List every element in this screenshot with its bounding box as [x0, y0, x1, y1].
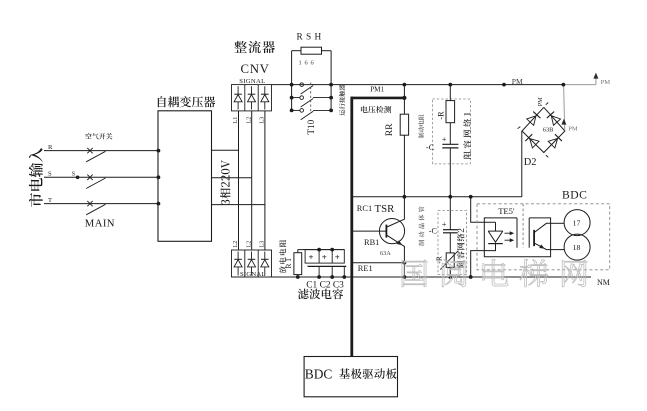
- contactor T10 contact 3: [292, 109, 300, 111]
- diode in top cell at x=238.1: [237, 86, 239, 94]
- wire bridge left corner down: [521, 131, 523, 197]
- wire column L1: [238, 111, 240, 250]
- watermark 国阅电梯网: [402, 259, 587, 287]
- svg-text:+: +: [335, 252, 340, 262]
- wire transformer tap L2: [212, 177, 252, 179]
- filter caps bottom wires: [318, 266, 320, 277]
- transformer 自耦变压器 box: [158, 111, 212, 242]
- svg-text:RB1: RB1: [364, 238, 379, 247]
- junction dot bus/bridge feed: [562, 83, 566, 87]
- svg-text:63B: 63B: [543, 126, 554, 133]
- wire mains phase R: [44, 150, 158, 152]
- svg-text:MAIN: MAIN: [85, 218, 115, 230]
- bridge diode bottom-right: [548, 138, 557, 147]
- resistor R1 body: [294, 253, 302, 275]
- bridge diode bottom-left: [530, 139, 539, 148]
- label 阻容网络1: [463, 113, 471, 159]
- diode bridge D2 outline: [522, 107, 565, 152]
- wire collector rail RC1: [352, 196, 522, 198]
- contactor T10 contact 2: [292, 97, 300, 99]
- main DC bus gray segment: [563, 84, 596, 86]
- label mains input 市电输入: [29, 148, 43, 207]
- wire RR branch: [403, 85, 405, 115]
- junction dots contact 3: [290, 109, 294, 113]
- filter caps bottom plate: [308, 265, 347, 267]
- svg-text:-C: -C: [426, 143, 435, 152]
- svg-text:63A: 63A: [380, 250, 391, 257]
- svg-text:T10: T10: [306, 119, 316, 134]
- junction dot optocoupler feed: [469, 195, 473, 199]
- label 基极驱动板: [339, 368, 397, 379]
- rectifier bottom diode cells: [232, 250, 272, 277]
- resistor RSH loop wires: [292, 50, 301, 52]
- svg-text:+: +: [442, 219, 447, 229]
- svg-text:TE5': TE5': [498, 206, 515, 216]
- svg-text:S: S: [72, 171, 76, 178]
- breaker switch S: [87, 175, 92, 180]
- svg-text:CNV: CNV: [241, 62, 270, 76]
- bridge diode top-left: [527, 116, 536, 126]
- svg-text:PM: PM: [601, 79, 611, 86]
- junction dots on negative bus: [403, 275, 407, 279]
- svg-text:+: +: [309, 252, 314, 262]
- label 制动晶体管: [419, 206, 425, 245]
- svg-text:RC1: RC1: [357, 204, 372, 213]
- junction dot R1 bottom: [296, 275, 300, 279]
- svg-text:R 1: R 1: [284, 258, 293, 269]
- svg-text:+: +: [322, 252, 327, 262]
- wire R1 leads: [297, 250, 299, 253]
- wire network2 branch: [449, 197, 451, 230]
- BDC dashed box: [477, 204, 610, 270]
- label 滤波电容: [298, 289, 343, 300]
- wire to terminal 18: [551, 249, 565, 251]
- wire bus to bridge right corner: [564, 85, 565, 131]
- optocoupler slot dashed line: [522, 204, 524, 248]
- junction dots contact 1: [290, 83, 294, 87]
- label 阻容网络2: [457, 228, 465, 267]
- resistor -R network1: [446, 101, 455, 123]
- main DC bus wire PM: [272, 84, 564, 86]
- junction dots at transformer inputs: [157, 149, 161, 153]
- svg-text:1 6 6: 1 6 6: [299, 60, 315, 67]
- terminal circle 17: [564, 210, 590, 236]
- svg-text:PM: PM: [512, 77, 523, 86]
- arrow PM into bridge: [561, 119, 566, 125]
- label rectifier 整流器: [234, 41, 275, 53]
- emitter arrow: [396, 240, 402, 245]
- label air breaker 空气开关: [85, 133, 112, 139]
- svg-text:-R: -R: [436, 111, 445, 120]
- junction dot collector rail: [403, 195, 407, 199]
- transistor TSR base bar: [385, 225, 387, 238]
- svg-text:18: 18: [573, 243, 581, 252]
- bridge diode top-right: [551, 116, 560, 126]
- svg-text:L1: L1: [232, 117, 239, 124]
- wire LED cathode to bus: [471, 251, 485, 277]
- svg-text:17: 17: [573, 219, 581, 228]
- junction dots filter caps: [317, 248, 321, 252]
- wire to terminal 17: [551, 222, 565, 224]
- label 制动电阻: [418, 114, 424, 138]
- wire RE1: [352, 262, 405, 264]
- svg-text:C1 C2 C3: C1 C2 C3: [306, 280, 344, 290]
- junction dot PM bus: [502, 83, 506, 87]
- svg-text:-R: -R: [434, 255, 443, 264]
- junction dot emitter/RE1: [403, 261, 407, 265]
- wire column L3: [264, 111, 266, 250]
- transistor TSR circle: [379, 219, 404, 244]
- resistor RR body: [400, 114, 408, 135]
- thick feeder wire PM1 to BDC board: [350, 97, 353, 357]
- arrow PM top right: [595, 78, 597, 85]
- junction dot network1 top: [448, 83, 452, 87]
- label 3相220V: [220, 160, 230, 205]
- svg-text:+: +: [442, 134, 447, 144]
- svg-text:RR: RR: [384, 123, 395, 136]
- svg-text:R S H: R S H: [297, 32, 322, 42]
- svg-text:BDC: BDC: [305, 366, 333, 381]
- svg-text:D2: D2: [524, 157, 537, 168]
- svg-text:SIGNAL: SIGNAL: [239, 78, 265, 85]
- LED in optocoupler: [495, 222, 497, 231]
- resistor -R network2: [446, 253, 454, 268]
- wire network1 branch: [449, 85, 451, 101]
- diode in top cell at x=251.5: [251, 86, 253, 94]
- svg-text:R: R: [48, 144, 53, 151]
- optocoupler TE5 box outline: [484, 218, 550, 257]
- negative bus wire NM: [232, 276, 592, 278]
- svg-text:L2: L2: [245, 241, 252, 248]
- RC network2 dashed box: [438, 211, 467, 275]
- junction dots contact 2: [290, 96, 294, 100]
- filter caps plus cells: [305, 250, 344, 264]
- BDC base drive board box: [304, 357, 397, 397]
- bridge terminal ticks: [546, 103, 549, 105]
- label 放电电阻: [279, 240, 286, 274]
- svg-text:PM: PM: [568, 125, 578, 132]
- filter caps + rail: [298, 249, 345, 251]
- strike line through -R network2: [440, 251, 458, 270]
- phototransistor in optocoupler: [533, 230, 535, 246]
- junction dot network2 top: [448, 195, 452, 199]
- label 运行接触器: [339, 84, 345, 115]
- junction dot S line: [76, 176, 80, 180]
- wire mains phase T: [44, 203, 158, 205]
- svg-text:PM: PM: [537, 97, 544, 106]
- wire rail to optocoupler: [471, 197, 496, 223]
- wire transformer tap L1: [212, 149, 239, 151]
- RC network1 dashed box: [432, 99, 470, 164]
- capacitor -C network2: [443, 229, 458, 231]
- breaker switch T: [87, 201, 92, 206]
- svg-text:T: T: [48, 197, 52, 204]
- svg-text:BDC: BDC: [562, 188, 587, 201]
- diode in top cell at x=264.8: [264, 86, 266, 94]
- contactor T10 mechanical link dashed: [310, 83, 312, 114]
- svg-text:PM1: PM1: [370, 86, 384, 94]
- junction dot RR top: [403, 83, 407, 87]
- contactor T10 contact 1: [300, 83, 304, 87]
- svg-text:S: S: [48, 171, 52, 178]
- svg-text:TSR: TSR: [375, 203, 396, 215]
- wire emitter: [387, 235, 405, 277]
- wire base RB1: [352, 230, 387, 232]
- svg-text:NM: NM: [597, 278, 610, 287]
- rectifier top diode cells: [232, 85, 272, 111]
- diode in bottom cell at x=251.5: [251, 252, 253, 260]
- junction dot PM1/RR: [402, 96, 406, 100]
- diode in bottom cell at x=238.1: [237, 252, 239, 260]
- wire collector: [387, 197, 405, 227]
- svg-text:-C: -C: [429, 227, 438, 236]
- wire mains phase S: [44, 176, 158, 178]
- label 自耦变压器: [158, 96, 215, 107]
- label 电压检测: [361, 106, 391, 113]
- wire transformer tap L3: [212, 204, 265, 206]
- resistor RSH body: [301, 47, 322, 54]
- terminal circle 18: [564, 234, 590, 260]
- diode in bottom cell at x=264.8: [264, 252, 266, 260]
- svg-text:RE1: RE1: [358, 264, 373, 273]
- breaker switch R: [87, 148, 92, 153]
- svg-text:L3: L3: [259, 241, 266, 248]
- svg-text:L2: L2: [232, 241, 239, 248]
- capacitor -C network1: [442, 143, 458, 145]
- LED emission arrows: [505, 232, 512, 234]
- wire column L2: [251, 111, 253, 250]
